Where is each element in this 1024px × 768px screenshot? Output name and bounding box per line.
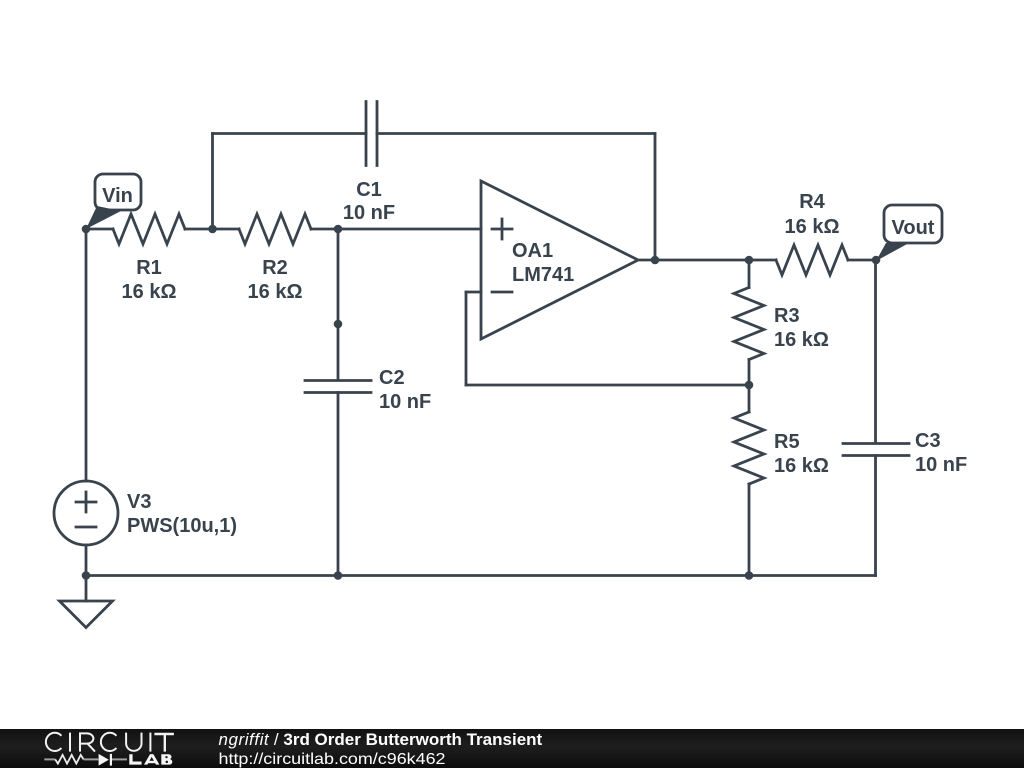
capacitor C2 <box>305 381 371 393</box>
flag Vout tail <box>876 243 909 261</box>
capacitor C1 <box>366 102 377 166</box>
wire node2 down to C2 <box>337 229 340 380</box>
wire bottom ground rail <box>86 574 876 577</box>
svg-text:ngriffit / 3rd Order Butterwor: ngriffit / 3rd Order Butterworth Transie… <box>219 730 543 749</box>
CircuitLab wordmark LAB <box>129 754 172 764</box>
node D (C2 wire joint) <box>334 320 343 329</box>
resistor R5 <box>734 385 764 576</box>
node I (V3 ground) <box>82 571 91 580</box>
svg-text:16 kΩ: 16 kΩ <box>774 455 829 477</box>
svg-text:C3: C3 <box>915 430 941 452</box>
svg-text:PWS(10u,1): PWS(10u,1) <box>127 515 237 537</box>
svg-text:Vin: Vin <box>102 185 133 207</box>
svg-text:OA1: OA1 <box>512 240 553 262</box>
resistor R2 <box>212 214 338 244</box>
wire Vout column upper <box>874 260 877 443</box>
svg-text:R3: R3 <box>774 305 800 327</box>
footer bar <box>0 729 1024 768</box>
flag Vin tail <box>86 206 121 229</box>
wire noninverting input <box>338 228 481 231</box>
wire V3 bottom to ground rail <box>85 545 88 576</box>
svg-text:10 nF: 10 nF <box>915 454 967 476</box>
wire C2 bottom to ground rail <box>337 393 340 576</box>
op-amp OA1 <box>481 181 638 339</box>
svg-text:16 kΩ: 16 kΩ <box>785 216 840 238</box>
svg-text:Vout: Vout <box>892 217 935 239</box>
svg-text:C2: C2 <box>379 367 405 389</box>
label R4 value <box>785 191 840 238</box>
resistor R1 <box>86 214 212 244</box>
svg-text:16 kΩ: 16 kΩ <box>122 281 177 303</box>
capacitor C3 <box>843 444 909 456</box>
label R3 value <box>774 305 829 351</box>
svg-text:LM741: LM741 <box>512 264 574 286</box>
svg-text:C1: C1 <box>356 179 382 201</box>
svg-text:R2: R2 <box>262 257 288 279</box>
svg-text:10 nF: 10 nF <box>343 202 395 224</box>
resistor R4 <box>776 245 876 275</box>
label R5 value <box>774 431 829 477</box>
label C1 value <box>343 179 395 224</box>
resistor R3 <box>734 260 764 385</box>
flag Vout box <box>884 205 942 243</box>
svg-text:R4: R4 <box>799 191 825 213</box>
label C2 value <box>379 367 431 413</box>
label R1 value <box>122 257 177 303</box>
node B (R1-R2 junction) <box>208 225 217 234</box>
node E (opamp output) <box>651 256 660 265</box>
CircuitLab logo resistor-diode glyph <box>44 754 127 766</box>
node A (Vin) <box>82 225 91 234</box>
wire feedback left vertical <box>465 292 468 385</box>
wire inverting input stub <box>466 291 481 294</box>
label OA1 <box>512 240 574 286</box>
svg-text:R5: R5 <box>774 431 800 453</box>
wire top rail left of C1 <box>213 132 367 135</box>
node G (Vout) <box>872 256 881 265</box>
CircuitLab wordmark CIRCUIT <box>46 733 174 752</box>
node K (R5 ground) <box>745 571 754 580</box>
wire output rail <box>638 259 776 262</box>
ground <box>60 576 113 628</box>
wire feedback vertical to output <box>654 134 657 261</box>
svg-text:10 nF: 10 nF <box>379 391 431 413</box>
svg-text:16 kΩ: 16 kΩ <box>774 329 829 351</box>
wire node1 up to top rail <box>211 134 214 230</box>
node H (R3-R5 junction) <box>745 381 754 390</box>
label R2 value <box>248 257 303 303</box>
wire top rail right of C1 <box>377 132 655 135</box>
label V3 value <box>127 491 237 537</box>
flag Vin box <box>95 174 141 210</box>
svg-text:R1: R1 <box>136 257 162 279</box>
wire feedback bottom horizontal <box>466 384 749 387</box>
wire left vertical from Vin node to V3 top <box>85 229 88 481</box>
svg-text:http://circuitlab.com/c96k462: http://circuitlab.com/c96k462 <box>219 751 446 768</box>
node J (C2 ground) <box>334 571 343 580</box>
svg-text:V3: V3 <box>127 491 151 513</box>
node C (R2 - opamp input) <box>334 225 343 234</box>
label C3 value <box>915 430 967 476</box>
wire C3 bottom to ground rail <box>874 456 877 576</box>
node F (R3 top) <box>745 256 754 265</box>
voltage source V3 <box>54 481 118 545</box>
svg-text:16 kΩ: 16 kΩ <box>248 281 303 303</box>
